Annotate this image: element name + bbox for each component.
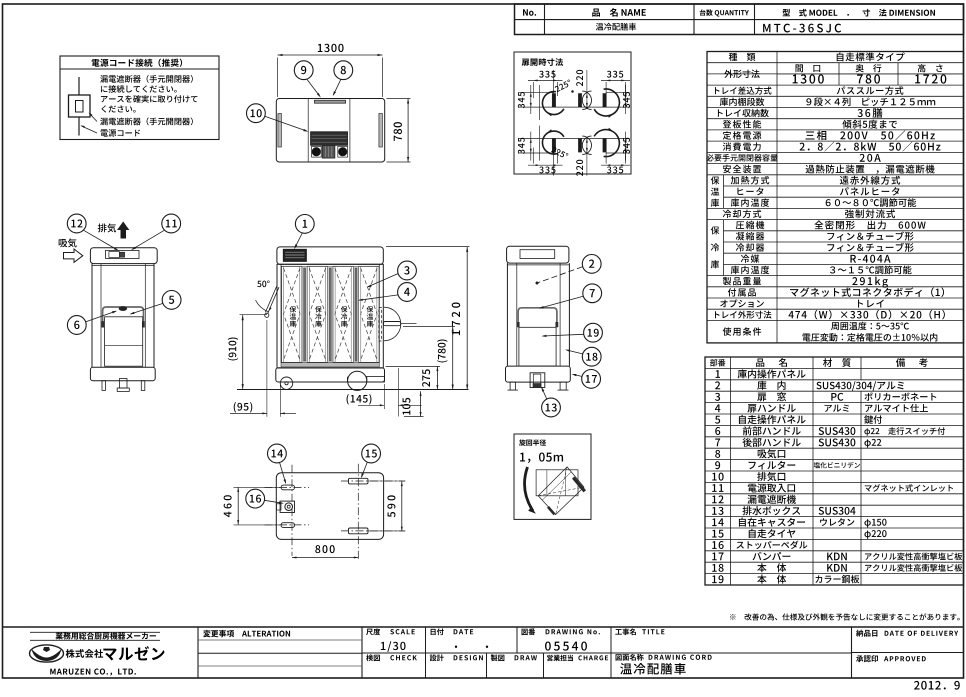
top view right handle bbox=[379, 114, 383, 148]
balloon 8 bbox=[334, 61, 353, 80]
turning radius box 旋回半径 bbox=[514, 434, 591, 519]
rear view vent box bbox=[106, 250, 140, 258]
note 改善の為 bbox=[730, 613, 960, 620]
door 2 label bbox=[315, 306, 322, 312]
leader 13 bbox=[542, 388, 547, 399]
title cell DESIGN bbox=[430, 654, 444, 661]
breaker symbol bbox=[78, 77, 80, 95]
door 3 bbox=[333, 266, 354, 362]
title cell CHECK bbox=[366, 654, 380, 661]
dimension (780) front bbox=[437, 340, 447, 363]
front view top cap bbox=[277, 247, 383, 264]
drain box item16 bbox=[280, 501, 294, 512]
spec rows bbox=[729, 53, 756, 61]
rear view exhaust label 排気 bbox=[98, 223, 116, 232]
front control panel bbox=[283, 249, 306, 261]
door 3 label bbox=[341, 306, 348, 312]
front base bbox=[276, 368, 385, 382]
leader 3 bbox=[368, 274, 398, 287]
note text bbox=[100, 75, 193, 83]
leader arrows in note box bbox=[90, 114, 98, 122]
door 1 label bbox=[290, 306, 297, 312]
leader 7 bbox=[540, 296, 583, 308]
title cell TITLE bbox=[615, 628, 636, 635]
balloon 19 bbox=[584, 323, 603, 342]
header cell MODEL DIMENSION bbox=[783, 9, 935, 17]
top view cart outline bbox=[276, 99, 384, 163]
side feet bbox=[510, 382, 515, 390]
front door area bbox=[280, 264, 282, 362]
door-open door bars bbox=[552, 94, 555, 108]
side view vent bbox=[520, 250, 555, 259]
leader 5 bbox=[131, 303, 163, 314]
door-open extension lines bbox=[519, 92, 554, 94]
leader 6 bbox=[86, 311, 116, 322]
model MTC-36SJC bbox=[763, 24, 841, 33]
intake label 吸気 bbox=[59, 238, 77, 247]
door-open dim 335 lines bbox=[528, 79, 563, 81]
top view fan left bbox=[312, 146, 322, 157]
leader 11 bbox=[132, 230, 164, 249]
door-open dim 345 arrows bbox=[530, 85, 532, 114]
balloon 16 bbox=[246, 489, 265, 508]
spec table 保冷庫 vertical label bbox=[711, 226, 719, 234]
door-open centre vertical line bbox=[586, 70, 588, 107]
spec table bbox=[707, 52, 964, 343]
top view fan right bbox=[338, 146, 348, 157]
side view body bbox=[506, 263, 508, 366]
dimension 800 bbox=[315, 545, 334, 553]
door-open labels bbox=[539, 71, 555, 78]
parts header bbox=[710, 359, 725, 366]
leader 16 bbox=[265, 500, 283, 503]
dimension (145) bbox=[347, 394, 372, 404]
label 扉開時寸法 bbox=[522, 58, 564, 66]
dimension 105 bbox=[402, 398, 410, 415]
balloon 7 bbox=[583, 284, 602, 303]
rear stopper pedal bbox=[120, 379, 128, 389]
header cell No. bbox=[523, 9, 536, 15]
header cell NAME bbox=[592, 8, 646, 17]
dimension 780 bbox=[394, 122, 402, 141]
title cell SCALE bbox=[366, 628, 380, 635]
tire front-right item15 bbox=[348, 478, 368, 484]
header table frame bbox=[515, 4, 964, 35]
balloon 11 bbox=[162, 214, 181, 233]
dimension 275 bbox=[422, 369, 430, 386]
dimension (910) bbox=[228, 338, 238, 361]
title block frame bbox=[3, 626, 964, 628]
note title 電源コード接続 bbox=[92, 59, 182, 67]
leader 1 bbox=[295, 233, 303, 248]
balloon 1 bbox=[295, 215, 314, 234]
drawing title 温冷配膳車 bbox=[620, 663, 686, 675]
ground line bbox=[237, 389, 469, 391]
top view vent slot bbox=[314, 100, 345, 103]
top view center block bbox=[322, 145, 335, 158]
side drain box item13 bbox=[530, 373, 545, 388]
title cell DRAWING No. bbox=[522, 628, 536, 635]
turning cart open door bar bbox=[572, 477, 586, 493]
top view left handle bbox=[278, 114, 282, 148]
front left caster bbox=[280, 377, 292, 389]
door handle bars bbox=[304, 268, 306, 361]
dimension 1300 bbox=[318, 44, 344, 52]
balloon 14 bbox=[268, 444, 287, 463]
balloon 6 bbox=[67, 316, 86, 335]
top view condenser unit bbox=[311, 132, 348, 146]
maruzen logo bbox=[30, 631, 160, 633]
balloon 4 bbox=[398, 283, 417, 302]
title cell CHARGE bbox=[547, 655, 573, 661]
title cell DATE bbox=[431, 628, 444, 635]
leader 15 bbox=[362, 462, 368, 477]
title cell DRAW bbox=[491, 654, 505, 661]
title cell ALTERATION bbox=[203, 630, 290, 637]
balloon 15 bbox=[362, 444, 381, 463]
exhaust arrow black bbox=[117, 222, 129, 239]
header cell QUANTITY bbox=[700, 9, 749, 16]
caster rear-left bbox=[281, 523, 294, 528]
parts table bbox=[705, 357, 964, 585]
leader 19 bbox=[543, 334, 584, 336]
label 旋回半径 bbox=[519, 439, 546, 445]
balloon 17 bbox=[582, 370, 601, 389]
title cell DRAWING CORD bbox=[616, 654, 644, 661]
front view body outline bbox=[277, 264, 383, 368]
title cell DATE OF DELIVERY bbox=[856, 630, 877, 637]
door mullion bars bbox=[302, 266, 307, 362]
balloon 12 bbox=[67, 214, 86, 233]
dimension 1720 bbox=[452, 302, 460, 335]
door 4 bbox=[359, 266, 380, 362]
balloon 5 bbox=[162, 291, 181, 310]
radius 1.05m bbox=[520, 453, 563, 463]
balloon 13 bbox=[542, 398, 561, 417]
door open dims box 扉開時寸法 bbox=[514, 52, 631, 174]
product name 温冷配膳車 bbox=[596, 23, 636, 31]
leader 12 bbox=[84, 230, 118, 250]
side inner panel item19 bbox=[519, 327, 556, 366]
caster front-left item14 bbox=[281, 485, 294, 490]
turning cart rotated 45 bbox=[538, 467, 584, 515]
power cord note box bbox=[60, 56, 219, 140]
front drive tire bbox=[348, 371, 367, 390]
balloon 9 bbox=[294, 61, 313, 80]
rear view body bbox=[91, 264, 93, 368]
door-open dim 220 arrows bbox=[586, 94, 588, 98]
rear view top cap bbox=[90, 248, 157, 264]
dimension 460 bbox=[224, 495, 232, 517]
door-open swing arcs bbox=[542, 92, 563, 115]
rear handle bbox=[103, 307, 144, 326]
title cell APPROVED bbox=[856, 655, 878, 662]
leader 14 bbox=[280, 463, 286, 483]
turning cart straight bbox=[536, 470, 578, 496]
turning arrow bbox=[525, 467, 533, 511]
leader 9 bbox=[307, 79, 320, 96]
dimension (95) bbox=[234, 402, 253, 412]
leader 18 bbox=[567, 350, 583, 354]
top view inner panel lines bbox=[307, 99, 309, 163]
leader 2 dashed bbox=[538, 267, 583, 283]
door 4 label bbox=[367, 306, 374, 312]
date 2012.9 bbox=[914, 681, 960, 690]
door 1 bbox=[282, 266, 303, 362]
tire rear-right bbox=[348, 528, 368, 534]
leader 4 bbox=[359, 295, 398, 300]
balloon 2 bbox=[582, 255, 601, 274]
door-open body outline bbox=[519, 106, 630, 108]
spec table 保温庫 vertical label bbox=[711, 176, 719, 184]
leader 10 bbox=[265, 116, 307, 131]
balloon 10 bbox=[247, 104, 266, 123]
bottom view center lines bbox=[291, 465, 293, 556]
leader 8 bbox=[334, 79, 341, 94]
leader 17 bbox=[573, 374, 582, 376]
bottom view outline bbox=[276, 473, 383, 540]
dimension 590 bbox=[387, 495, 395, 517]
intake arrow white bbox=[64, 249, 83, 262]
side rear handle item7 bbox=[518, 308, 557, 326]
side base item17 bbox=[506, 366, 571, 382]
50 degree door swing bbox=[257, 280, 269, 287]
rear inner compartment bbox=[105, 317, 143, 366]
rear handle protruding right bbox=[383, 322, 401, 326]
rear base bbox=[90, 367, 155, 380]
door 2 bbox=[307, 266, 328, 362]
rear feet bbox=[102, 381, 106, 391]
balloon 18 bbox=[582, 347, 601, 366]
balloon 3 bbox=[398, 261, 417, 280]
side view top cap bbox=[507, 246, 569, 263]
